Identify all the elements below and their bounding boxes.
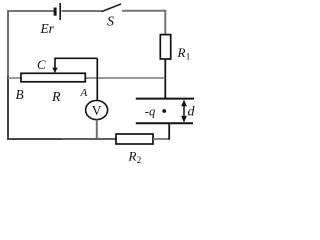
wire: left rail upper part <box>7 10 9 76</box>
wire: top rail right of switch <box>122 10 166 12</box>
battery Er (short thick negative plate) <box>54 8 57 16</box>
svg-text:B: B <box>16 87 24 102</box>
wire: slider C vertical down to voltmeter <box>96 58 98 101</box>
svg-text:-q: -q <box>145 105 156 119</box>
wire: R1 to capacitor top plate <box>164 59 166 98</box>
wire: left rail lower part <box>7 76 9 140</box>
dimension arrow d (double headed) <box>183 103 185 119</box>
wire: top rail left of battery <box>7 10 54 12</box>
svg-text:C: C <box>37 57 46 72</box>
wire: left stub to rheostat <box>8 77 22 79</box>
svg-text:Er: Er <box>40 21 55 36</box>
svg-text:2: 2 <box>137 155 142 164</box>
resistor R2 <box>116 134 153 144</box>
svg-text:S: S <box>107 15 114 30</box>
voltmeter V <box>86 100 108 119</box>
battery Er (long thin positive plate) <box>59 3 61 20</box>
svg-text:1: 1 <box>186 52 191 62</box>
svg-text:A: A <box>80 87 88 99</box>
svg-text:d: d <box>188 104 196 119</box>
switch S blade <box>102 4 122 12</box>
wire: slider C horizontal <box>54 57 97 59</box>
wire: rheostat terminal A to right node junction <box>86 77 166 79</box>
capacitor top plate <box>136 98 194 100</box>
charge -q dot <box>162 109 166 113</box>
svg-text:R: R <box>177 45 186 60</box>
wire: right rail down to R1 <box>164 10 166 35</box>
svg-text:V: V <box>92 103 102 118</box>
svg-text:R: R <box>51 90 61 105</box>
wire: bottom rail left segment <box>7 138 62 140</box>
wire: bottom rail toward R2 <box>62 138 116 140</box>
wire: bottom rail right of R2 <box>153 138 170 140</box>
capacitor bottom plate <box>136 122 193 124</box>
svg-text:R: R <box>128 149 137 164</box>
slider arrow C <box>54 58 56 68</box>
wire: top rail battery to switch <box>62 10 102 12</box>
rheostat R body <box>21 73 85 82</box>
wire: voltmeter to bottom rail <box>96 120 98 139</box>
wire: capacitor bottom plate stub <box>168 123 170 139</box>
resistor R1 <box>160 35 170 59</box>
